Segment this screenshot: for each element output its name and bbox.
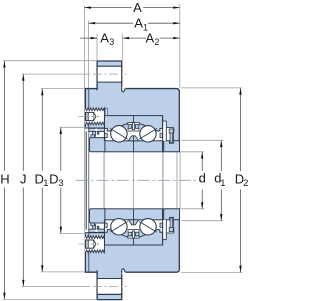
relief notch top bbox=[121, 87, 126, 92]
svg-text:3: 3 bbox=[109, 37, 114, 47]
ext line d1 bottom bbox=[182, 220, 224, 222]
sleeve seal tab lower bbox=[91, 223, 95, 226]
sleeve end face edge (through view) bbox=[176, 152, 178, 208]
snap ring lower bbox=[170, 218, 172, 232]
svg-text:A: A bbox=[134, 16, 143, 31]
flange lug top (boss with bolt hole) bbox=[97, 61, 122, 91]
inner ring upper bbox=[105, 141, 163, 152]
left opening step edge bottom bbox=[85, 232, 105, 234]
ext line d1 top bbox=[182, 139, 224, 141]
back cover rim, lower bbox=[89, 229, 105, 232]
bearing right face line bbox=[162, 116, 164, 152]
dim A1 bbox=[89, 22, 134, 24]
relief notch bottom bbox=[121, 269, 126, 274]
ball upper right bbox=[140, 126, 156, 142]
svg-text:d: d bbox=[199, 171, 206, 186]
ext line A3/A2 bbox=[122, 34, 124, 61]
ext line D1 bottom bbox=[41, 271, 85, 273]
shield block right lower bbox=[160, 223, 163, 227]
outer ring lower (with raceway profile) bbox=[105, 230, 163, 245]
ext line H bottom bbox=[3, 298, 97, 300]
thread crest zigzag lower top bbox=[85, 236, 104, 239]
inner ring center wedge upper bbox=[128, 136, 138, 141]
housing body (sectioned, blue) bbox=[85, 89, 179, 273]
inner ring lower bbox=[105, 209, 163, 220]
sleeve snap notch upper bbox=[169, 140, 173, 143]
set screw axis lower bbox=[79, 243, 97, 245]
ext line H top bbox=[3, 60, 97, 62]
grease slot in top band bbox=[105, 108, 107, 115]
svg-text:A: A bbox=[100, 30, 109, 45]
inner ring center wedge lower bbox=[128, 220, 138, 225]
bearing cavity white band lower bbox=[105, 220, 163, 232]
set screw tip mark upper bbox=[97, 115, 98, 118]
svg-text:2: 2 bbox=[154, 37, 159, 47]
set screw hole upper (white chamber) bbox=[85, 109, 104, 125]
set screw lower bbox=[86, 240, 94, 248]
dim D1 bbox=[41, 89, 43, 171]
ext line A1 left bbox=[88, 21, 90, 88]
cage upper: arms, blocks, plate, stem bbox=[128, 123, 139, 125]
sleeve bore edge (through view) bbox=[103, 153, 105, 208]
cage lower: arms, blocks, plate, stem bbox=[128, 236, 139, 238]
ball upper left bbox=[111, 126, 127, 142]
set screw axis upper bbox=[79, 116, 97, 118]
ext line D1 top bbox=[41, 88, 85, 90]
ext line J top bbox=[22, 73, 90, 75]
outer ring upper (with raceway profile) bbox=[105, 116, 163, 131]
dim A2 bbox=[123, 37, 146, 39]
dim H bbox=[3, 61, 5, 171]
dim A bbox=[84, 7, 131, 9]
shield block right upper bbox=[160, 133, 163, 137]
inner ring split line through bore bbox=[133, 152, 135, 208]
inner ring sleeve extension right lower bbox=[164, 209, 180, 220]
ball lower left bbox=[111, 219, 127, 235]
svg-text:1: 1 bbox=[220, 178, 225, 189]
snap ring groove lower right bbox=[166, 228, 174, 233]
dim J bbox=[22, 74, 24, 171]
snap ring groove upper right bbox=[166, 128, 174, 133]
ext line A left bbox=[83, 6, 85, 232]
contact line ball lower right bbox=[139, 222, 157, 233]
shield block left lower bbox=[105, 223, 108, 227]
contact line ball upper right bbox=[139, 129, 157, 140]
svg-text:H: H bbox=[0, 171, 9, 186]
left face inner edge top bbox=[88, 89, 90, 127]
sleeve seal tab upper bbox=[91, 135, 95, 138]
bolt hole top centerline bbox=[93, 73, 127, 75]
dim D2 bbox=[240, 88, 242, 171]
bearing left face line bbox=[103, 116, 105, 141]
ext line D2 top bbox=[181, 87, 242, 89]
dim D3 bbox=[60, 128, 62, 171]
contact line ball upper left bbox=[110, 129, 128, 140]
outer ring split line lower bbox=[133, 238, 135, 245]
housing lip gap right lower bbox=[163, 220, 166, 240]
dim d1 bbox=[220, 141, 222, 172]
shield block left upper bbox=[105, 133, 108, 137]
ext line D2 bottom bbox=[181, 271, 242, 273]
dim A3 bbox=[80, 37, 97, 39]
bolt hole bottom centerline bbox=[93, 286, 127, 288]
snap ring upper bbox=[170, 129, 172, 143]
bolt hole bottom bbox=[97, 279, 122, 295]
thread crest zigzag lower bottom bbox=[85, 250, 104, 253]
thread crest zigzag upper top bbox=[85, 108, 104, 111]
svg-text:1: 1 bbox=[43, 178, 48, 189]
ext line d top bbox=[180, 151, 204, 153]
cover channel upper right bbox=[167, 133, 173, 141]
svg-text:A: A bbox=[133, 0, 142, 15]
inner ring sleeve extension right upper bbox=[164, 141, 180, 152]
bore (shaft hole) bbox=[105, 152, 162, 208]
set screw tip mark lower bbox=[97, 243, 98, 246]
set screw hole lower (white chamber) bbox=[85, 236, 104, 252]
cover channel lower right bbox=[167, 220, 173, 228]
thread crest zigzag upper bottom bbox=[85, 122, 104, 125]
svg-text:2: 2 bbox=[243, 178, 248, 189]
bolt hole top bbox=[97, 66, 122, 82]
inner ring sleeve extension upper bbox=[90, 138, 105, 152]
ext line d bottom bbox=[180, 208, 204, 210]
right face edge (through view) bbox=[179, 152, 181, 208]
set screw upper bbox=[86, 112, 94, 120]
svg-text:D: D bbox=[49, 171, 58, 186]
left back-cover opening (see-through) bbox=[85, 129, 105, 233]
outer ring split line upper bbox=[133, 116, 135, 123]
left opening step edge top bbox=[85, 127, 105, 129]
ext line A3 left bbox=[96, 34, 98, 61]
flange lug bottom bbox=[97, 270, 122, 300]
pressed steel back cover sheet bbox=[85, 131, 87, 230]
ball lower right bbox=[140, 219, 156, 235]
housing lip gap right upper bbox=[163, 121, 166, 141]
right opening (see-through) bbox=[163, 152, 181, 208]
ext line D3 top bbox=[60, 126, 87, 128]
sleeve snap notch lower bbox=[169, 217, 173, 220]
inner ring split line lower bbox=[133, 209, 135, 225]
left face inner edge bottom bbox=[88, 233, 90, 271]
inner ring split line upper bbox=[133, 136, 135, 152]
bearing cavity white band upper bbox=[105, 129, 163, 141]
inner ring sleeve extension lower bbox=[90, 209, 105, 223]
contact line ball lower left bbox=[110, 222, 128, 233]
ext line D3 bottom bbox=[60, 232, 87, 234]
back cover rim, upper bbox=[89, 128, 105, 131]
dim d bbox=[201, 152, 203, 171]
ext line A right bbox=[179, 4, 181, 88]
svg-text:A: A bbox=[145, 30, 154, 45]
svg-text:J: J bbox=[20, 171, 27, 186]
ext line J bottom bbox=[22, 286, 90, 288]
svg-text:3: 3 bbox=[58, 178, 63, 189]
right opening bore edge (through view) bbox=[162, 152, 164, 208]
main shaft axis centerline bbox=[76, 179, 202, 181]
